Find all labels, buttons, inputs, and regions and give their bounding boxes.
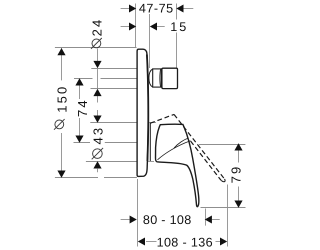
extension line H7 sleeve bottom <box>74 142 91 144</box>
handle cap and lever <box>156 124 199 206</box>
diameter symbol of d24 <box>92 39 101 48</box>
dim line d43 leader <box>97 110 99 117</box>
arrow 47-75 right <box>176 5 183 13</box>
arrow d43 top <box>93 116 101 123</box>
extension line V1 wall top <box>135 4 137 49</box>
dim line 108-136 left tail <box>146 241 157 243</box>
escutcheon plate <box>137 49 148 176</box>
pipe fillet <box>149 69 153 87</box>
dashed lever back edge <box>150 114 174 123</box>
arrow d43 bottom <box>93 161 101 168</box>
arrow 15 left <box>129 23 136 31</box>
extension line H9 cap bottom <box>86 161 137 163</box>
arrow d24 bottom <box>93 89 101 96</box>
arrow 108-136 right <box>220 238 227 246</box>
extension line V2 pipe back <box>149 14 151 68</box>
pipe neck waist <box>159 69 162 87</box>
dim line 74 <box>79 79 81 99</box>
dim line 47-75 left tail <box>121 8 130 10</box>
dim line 80-108 left tail <box>121 219 130 221</box>
diameter symbol of d43 <box>93 149 103 159</box>
svg-text:108 - 136: 108 - 136 <box>157 235 213 249</box>
dashed lever tip <box>221 179 225 182</box>
extension line H11 lever tip level <box>201 207 246 209</box>
inner curve 2 <box>174 138 189 148</box>
arrow 15 right <box>150 23 157 31</box>
dim line 80-108 right tail <box>212 219 220 221</box>
svg-text:79: 79 <box>229 165 244 184</box>
arrow 74 bottom <box>75 136 83 143</box>
extension line V6 dashed lever tip <box>227 185 229 247</box>
extension line H3b plate bottom <box>55 177 98 179</box>
sleeve edge <box>149 123 151 161</box>
svg-text:15: 15 <box>170 20 188 34</box>
diameter symbol of d150 <box>55 120 64 129</box>
dim line 108-136 right tail <box>216 241 221 243</box>
extension line H5 pipe bottom <box>91 88 137 90</box>
extension line H6 sleeve top <box>74 78 93 80</box>
svg-text:74: 74 <box>75 98 90 117</box>
dim line d24 leader <box>97 49 99 62</box>
extension line H8 cap top <box>90 122 136 124</box>
extension line V5 lever tip <box>205 209 207 226</box>
dim line 15 left tail <box>121 26 130 28</box>
arrow d150 top <box>57 48 65 55</box>
extension line V7 wall bottom <box>137 179 139 247</box>
arrow 79 top <box>234 143 242 150</box>
arrow 47-75 left <box>129 5 136 13</box>
pipe cylinder <box>162 68 178 88</box>
arrow 108-136 left <box>138 238 145 246</box>
arrow 79 bottom <box>234 201 242 208</box>
dim line d150 <box>61 48 63 80</box>
dim line 79 <box>238 145 240 163</box>
svg-text:150: 150 <box>55 85 70 113</box>
dim line 47-75 right tail <box>183 8 193 10</box>
svg-text:24: 24 <box>89 18 104 37</box>
extension line H4 pipe top <box>91 68 136 70</box>
arrow 80-108 left <box>130 216 137 224</box>
arrow d24 top <box>93 61 101 68</box>
arrow 74 top <box>75 78 83 85</box>
dashed lever top edge <box>174 114 225 179</box>
svg-text:80 - 108: 80 - 108 <box>143 213 192 227</box>
dim line 15 right tail <box>157 26 165 28</box>
arrow d150 bottom <box>57 171 65 178</box>
inner curve 1 <box>158 141 191 160</box>
extension line V3 pipe front <box>176 4 178 20</box>
arrow 80-108 right <box>205 216 212 224</box>
plate edge shading <box>147 55 148 162</box>
extension line H10 body bottom right <box>199 144 245 146</box>
svg-text:47-75: 47-75 <box>139 2 174 16</box>
dashed lever bottom edge <box>191 141 221 180</box>
pipe ring <box>153 69 162 87</box>
svg-text:43: 43 <box>90 126 105 145</box>
extension line H3 plate top <box>55 47 137 49</box>
